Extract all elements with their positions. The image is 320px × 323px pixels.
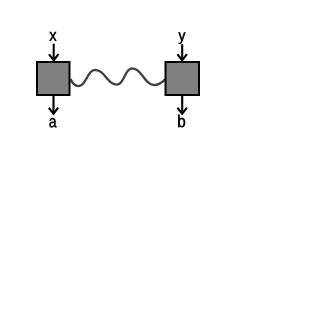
left box bbox=[37, 62, 70, 95]
label x bbox=[49, 32, 56, 41]
arrow out of left box (a output) bbox=[49, 96, 58, 114]
label b bbox=[178, 115, 185, 127]
label y bbox=[178, 32, 185, 44]
arrow into left box (x input) bbox=[49, 44, 58, 61]
arrow out of right box (b output) bbox=[178, 96, 187, 114]
arrow into right box (y input) bbox=[178, 44, 187, 60]
label a bbox=[49, 118, 56, 127]
wavy connector between boxes bbox=[71, 69, 166, 87]
right box bbox=[166, 62, 200, 95]
